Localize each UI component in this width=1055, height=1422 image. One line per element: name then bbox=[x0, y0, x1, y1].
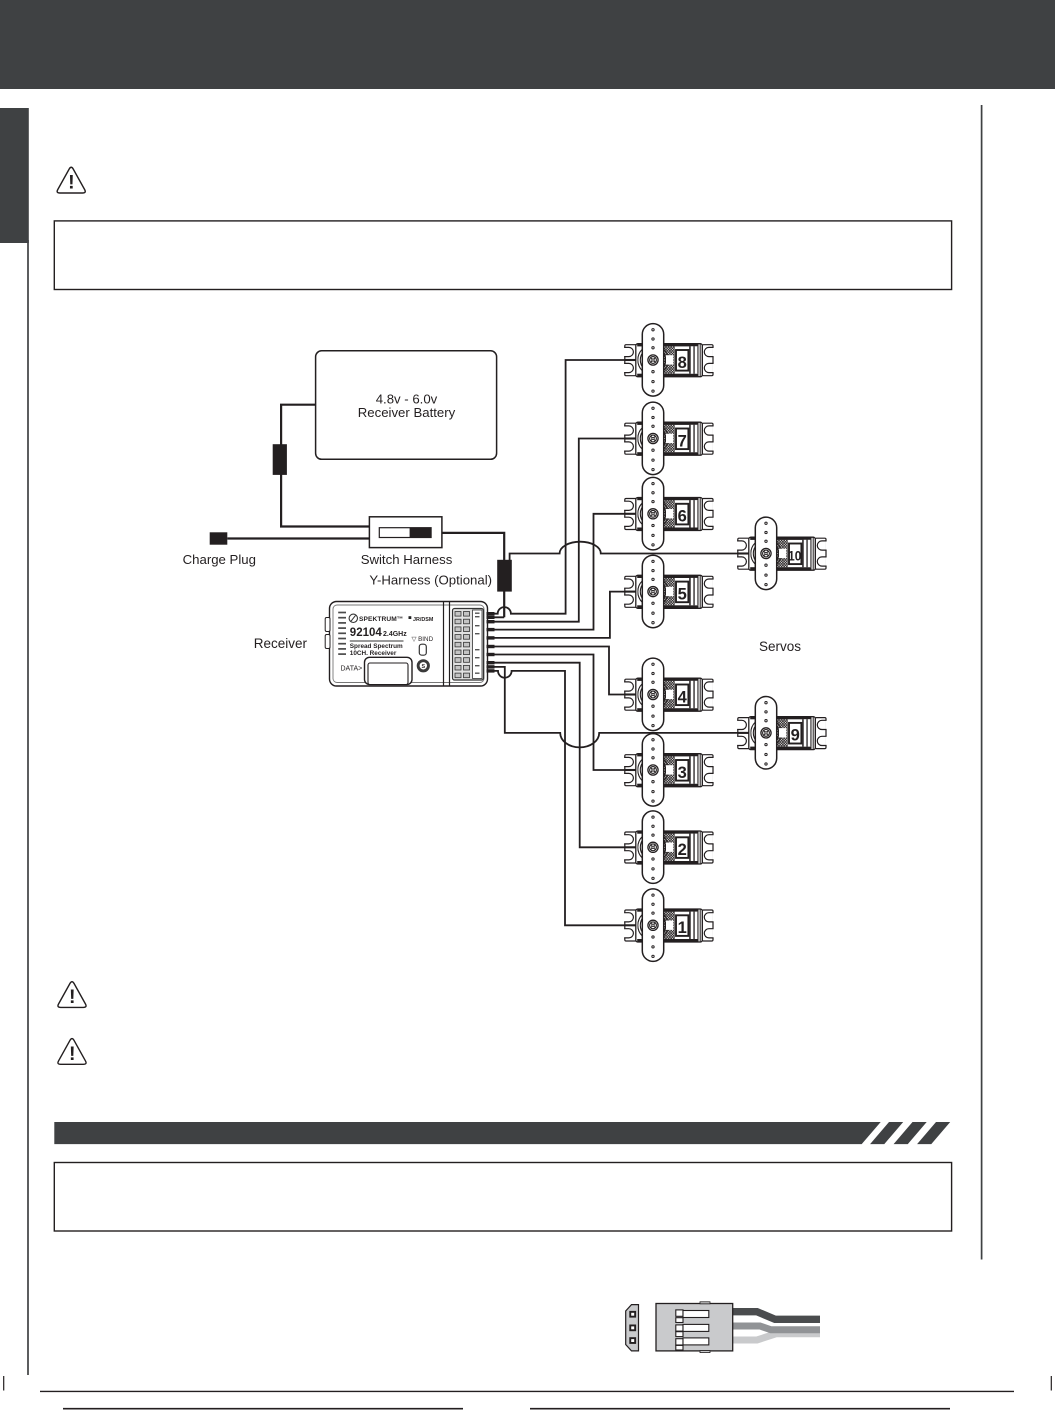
svg-text:9: 9 bbox=[791, 727, 800, 745]
svg-text:Switch Harness: Switch Harness bbox=[361, 552, 453, 567]
svg-text:Receiver: Receiver bbox=[254, 636, 308, 651]
svg-text:10: 10 bbox=[788, 548, 801, 563]
svg-text:7: 7 bbox=[678, 432, 687, 450]
svg-text:!: ! bbox=[69, 1043, 76, 1065]
svg-text:S: S bbox=[421, 664, 425, 670]
svg-text:8: 8 bbox=[678, 354, 687, 372]
svg-text:SPEKTRUM™: SPEKTRUM™ bbox=[359, 616, 404, 623]
svg-text:Servos: Servos bbox=[759, 639, 801, 654]
svg-text:4: 4 bbox=[678, 688, 688, 706]
svg-text:!: ! bbox=[69, 986, 76, 1008]
svg-text:10CH. Receiver: 10CH. Receiver bbox=[350, 650, 397, 657]
svg-text:3: 3 bbox=[678, 764, 687, 782]
svg-text:Y-Harness (Optional): Y-Harness (Optional) bbox=[369, 573, 492, 588]
svg-text:DATA>: DATA> bbox=[341, 666, 363, 673]
svg-text:!: ! bbox=[68, 172, 75, 194]
svg-text:▽ BIND: ▽ BIND bbox=[412, 636, 434, 643]
svg-text:JR/DSM: JR/DSM bbox=[413, 617, 434, 623]
svg-text:6: 6 bbox=[678, 508, 687, 526]
svg-text:1: 1 bbox=[678, 919, 687, 937]
svg-text:2: 2 bbox=[678, 841, 687, 859]
svg-text:Charge Plug: Charge Plug bbox=[183, 552, 256, 567]
svg-text:5: 5 bbox=[678, 585, 687, 603]
svg-text:92104: 92104 bbox=[350, 627, 383, 639]
svg-text:Receiver Battery: Receiver Battery bbox=[358, 405, 456, 420]
svg-text:2.4GHz: 2.4GHz bbox=[383, 631, 407, 638]
